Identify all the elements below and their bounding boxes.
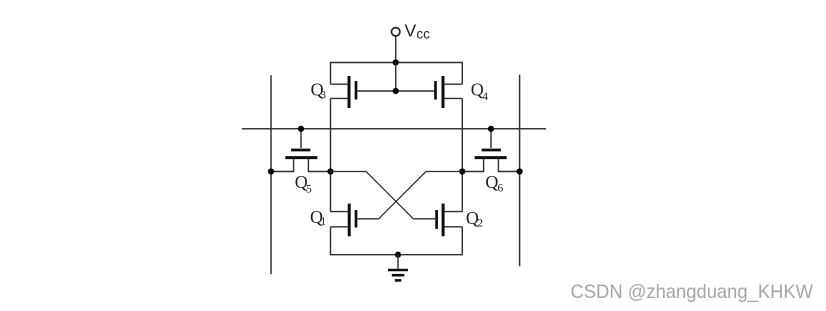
node ground junction: [395, 252, 401, 258]
label Q1: [310, 207, 326, 228]
wire word line: [242, 128, 546, 130]
wire center stub to Q3/Q4 gates: [395, 63, 397, 92]
wire right internal node vertical: [461, 98, 463, 211]
svg-text:5: 5: [306, 183, 312, 195]
node Vcc / top rail junction: [393, 59, 399, 65]
wire right bit line: [519, 75, 521, 267]
label Q5: [295, 172, 312, 196]
node right bit line / Q6: [517, 168, 523, 174]
ground: [388, 255, 408, 281]
label Q3: [311, 80, 327, 102]
label Q6: [485, 172, 503, 195]
node B right internal: [459, 168, 465, 174]
transistor Q2: [413, 204, 462, 237]
svg-text:cc: cc: [416, 27, 430, 42]
wire left bit line: [270, 75, 272, 274]
svg-text:CSDN @zhangduang_KHKW: CSDN @zhangduang_KHKW: [571, 281, 814, 303]
svg-text:6: 6: [498, 183, 504, 195]
wire top supply rail: [331, 63, 463, 85]
node A left internal: [327, 168, 333, 174]
wire Q3-Q4 gate lead: [357, 90, 436, 92]
transistor Q6: [462, 129, 519, 172]
label Vcc: [405, 20, 431, 41]
transistor Q3: [331, 76, 357, 108]
wire bottom rail: [331, 227, 463, 255]
svg-text:V: V: [405, 20, 417, 40]
wire cross-couple node A to Q2 gate: [331, 172, 414, 219]
transistor Q1: [331, 204, 379, 237]
node Q3/Q4 gate junction: [393, 88, 399, 94]
svg-text:2: 2: [477, 218, 483, 230]
svg-text:Q: Q: [485, 172, 498, 192]
label Q2: [466, 208, 483, 230]
transistor Q4: [436, 76, 463, 108]
node left bit line / Q5: [268, 168, 274, 174]
svg-text:4: 4: [482, 91, 488, 103]
wire cross-couple node B to Q1 gate: [379, 172, 463, 219]
transistor Q5: [271, 129, 331, 172]
svg-text:1: 1: [320, 216, 326, 228]
node word line / Q6 gate: [488, 126, 494, 132]
wire left internal node vertical: [330, 98, 332, 211]
node word line / Q5 gate: [298, 126, 304, 132]
label Q4: [471, 79, 488, 103]
svg-text:3: 3: [320, 90, 326, 102]
power terminal Vcc: [392, 28, 400, 63]
